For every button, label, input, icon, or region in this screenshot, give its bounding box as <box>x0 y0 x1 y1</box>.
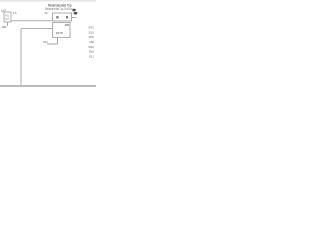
svg-text:Metamaterials Top.SchDoc: Metamaterials Top.SchDoc <box>45 7 72 11</box>
svg-text:U?: U? <box>1 9 5 13</box>
svg-text:MISO1: MISO1 <box>89 45 94 49</box>
svg-text:4078: 4078 <box>56 31 63 35</box>
svg-text:GND: GND <box>2 25 7 29</box>
svg-text:DB: DB <box>65 23 69 27</box>
svg-text:RF1: RF1 <box>43 40 48 44</box>
svg-text:1A: 1A <box>13 11 17 15</box>
svg-text:SCL1: SCL1 <box>89 54 94 58</box>
svg-text:OUT: OUT <box>5 18 9 21</box>
svg-text:MOSI: MOSI <box>89 35 94 39</box>
svg-text:SDA2: SDA2 <box>89 50 94 54</box>
svg-text:SCLK2: SCLK2 <box>89 30 94 34</box>
svg-text:CS0: CS0 <box>89 40 94 44</box>
svg-text:GPIO1: GPIO1 <box>88 26 94 30</box>
svg-text:40: 40 <box>44 11 48 15</box>
